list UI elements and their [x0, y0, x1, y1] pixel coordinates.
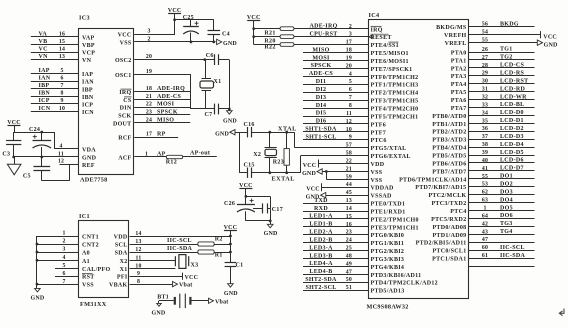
svg-text:LCD-RS: LCD-RS — [500, 71, 524, 77]
svg-text:40: 40 — [482, 158, 488, 164]
svg-text:1: 1 — [145, 151, 148, 157]
IC4 pin 3 RESET / net CPU-RST — [254, 32, 392, 42]
svg-text:24: 24 — [146, 117, 152, 123]
resistor R1 — [198, 250, 232, 259]
svg-text:X3: X3 — [191, 263, 199, 269]
svg-text:SHT2-SDA: SHT2-SDA — [305, 277, 337, 283]
IC3 pin 17 RCF / net RP — [118, 132, 178, 142]
ground symbol (C26) — [264, 224, 278, 237]
svg-text:10: 10 — [346, 127, 352, 133]
svg-text:PTC6: PTC6 — [371, 138, 387, 144]
svg-text:RST: RST — [82, 275, 95, 281]
svg-text:PTD7/KBI7/AD15: PTD7/KBI7/AD15 — [415, 185, 466, 191]
svg-text:C5: C5 — [23, 174, 31, 180]
svg-text:C26: C26 — [224, 201, 235, 207]
svg-text:AP: AP — [157, 151, 166, 157]
IC1 pin 1 CNT1 — [37, 231, 99, 241]
svg-text:GND: GND — [302, 171, 316, 177]
svg-text:LED4-B: LED4-B — [309, 269, 332, 275]
svg-text:BKDG: BKDG — [500, 21, 519, 27]
svg-text:6: 6 — [349, 87, 352, 93]
svg-text:PTA3: PTA3 — [451, 74, 467, 80]
IC1 pin 9 PFI — [117, 271, 140, 281]
svg-text:CPU-RST: CPU-RST — [309, 32, 337, 38]
IC4 pin 14 PTE1/RXD1 / net RXD — [303, 206, 406, 216]
wire XTAL node — [239, 125, 297, 133]
IC4 pin 64 PTC5/RXD2 / net DO6 — [431, 213, 534, 223]
svg-text:DO1: DO1 — [500, 174, 513, 180]
IC4 pin 6 PTF2/TPM1CH4 / net DI2 — [303, 87, 418, 97]
IC4 pin 5 PTF1/TPM1CH3 / net DI1 — [303, 79, 418, 89]
svg-text:VDDAD: VDDAD — [371, 186, 395, 192]
svg-text:LED3-A: LED3-A — [309, 245, 333, 251]
svg-text:TG4: TG4 — [500, 229, 513, 235]
svg-text:OSC1: OSC1 — [115, 73, 132, 79]
svg-text:VCC: VCC — [118, 33, 132, 39]
svg-text:PTA6: PTA6 — [451, 98, 467, 104]
svg-text:GND: GND — [224, 291, 238, 297]
IC1 pin 11 X2 — [120, 255, 142, 265]
IC3 pin 18 IRQ / net ADE-IRQ — [119, 86, 190, 96]
IC4 pin 55 VREFL — [445, 38, 558, 49]
svg-text:PTD3/KBI6/AD11: PTD3/KBI6/AD11 — [371, 273, 422, 279]
svg-text:TG1: TG1 — [500, 47, 513, 53]
svg-text:BKDG/MS: BKDG/MS — [436, 25, 467, 31]
VCC symbol (top middle) — [168, 8, 182, 34]
svg-text:R12: R12 — [166, 160, 177, 166]
svg-text:42: 42 — [482, 221, 488, 227]
svg-text:X1: X1 — [120, 267, 128, 273]
IC4 pin 39 PTB5/ATD5 / net LCD-D5 — [432, 150, 534, 160]
svg-text:55: 55 — [482, 174, 488, 180]
wire EXTAL to IC4 pin 58 — [300, 156, 302, 173]
svg-text:13: 13 — [59, 54, 65, 60]
svg-text:IC1: IC1 — [79, 213, 90, 220]
svg-text:CNT2: CNT2 — [82, 243, 99, 249]
svg-text:6: 6 — [62, 271, 65, 277]
resistor R20 — [264, 35, 294, 45]
ground flag (XTAL cluster) — [215, 129, 239, 137]
svg-text:SHT1-SDA: SHT1-SDA — [305, 127, 337, 133]
svg-text:10: 10 — [59, 106, 65, 112]
resistor R23 — [273, 132, 290, 173]
IC3 pin 11 GND — [14, 151, 97, 161]
svg-text:DI5: DI5 — [316, 111, 327, 117]
svg-text:14: 14 — [59, 46, 65, 52]
svg-text:47: 47 — [346, 269, 352, 275]
svg-text:GND: GND — [215, 131, 229, 137]
svg-text:R1: R1 — [215, 253, 223, 259]
IC4 pin 49 PTG4/KBI4 / net LED4-A — [303, 261, 404, 271]
IC4 pin 47 PTD3/KBI6/AD11 / net LED4-B — [303, 269, 421, 279]
IC3 pin 12 REF — [58, 159, 95, 169]
IC4 pin 29 PTA3 / net LCD-RS — [451, 71, 535, 81]
svg-text:PTG6/EXTAL: PTG6/EXTAL — [371, 154, 411, 160]
IC4 pin 9 PTC6 / net SHT1-SCL — [303, 135, 387, 145]
IC4 pin 19 PTE6/MOSI1 / net MOSI — [303, 55, 409, 65]
svg-text:GND: GND — [544, 43, 558, 49]
svg-text:LCD-BL: LCD-BL — [500, 102, 524, 108]
IC4 pin 54 VREFH — [444, 30, 557, 41]
ground symbol (IC1) — [31, 288, 45, 301]
IC4 pin 24 PTG1/KBI1 / net LED2-B — [303, 237, 404, 247]
svg-text:2: 2 — [147, 36, 150, 42]
svg-text:49: 49 — [346, 261, 352, 267]
svg-text:EXTAL: EXTAL — [272, 176, 295, 183]
svg-text:LED1-B: LED1-B — [309, 222, 332, 228]
svg-text:22: 22 — [146, 102, 152, 108]
svg-text:7: 7 — [349, 95, 352, 101]
svg-text:GND: GND — [264, 231, 278, 237]
svg-text:PTB5/ATD5: PTB5/ATD5 — [432, 154, 466, 160]
svg-text:ICP: ICP — [82, 102, 93, 108]
IC1 pin 10 X1 — [120, 263, 142, 273]
capacitor C24 (electrolytic) — [29, 127, 51, 157]
svg-text:31: 31 — [482, 87, 488, 93]
svg-text:26: 26 — [482, 47, 488, 53]
svg-text:TG3: TG3 — [500, 221, 513, 227]
svg-text:12: 12 — [58, 159, 64, 165]
svg-text:15: 15 — [59, 39, 65, 45]
IC4 pin 7 PTF3/TPM1CH5 / net DI3 — [303, 95, 418, 105]
svg-text:25: 25 — [346, 246, 352, 252]
wire analog ground row — [12, 156, 43, 159]
wire C26 bottom to gnd — [246, 208, 272, 224]
svg-text:TG2: TG2 — [500, 55, 513, 61]
IC4 pin 15 PTE2/TPM1CH0 / net LED1-A — [303, 214, 419, 224]
svg-text:BT1: BT1 — [157, 294, 169, 300]
IC4 pin 50 PTD4/TPM2CLK/AD12 / net SHT2-SDA — [303, 277, 438, 287]
VCC flag (PFI) — [130, 273, 199, 281]
IC4 pin 11 PTF5/TPM2CH1 / net DI5 — [303, 111, 418, 121]
svg-text:43: 43 — [482, 229, 488, 235]
svg-text:MOSI: MOSI — [157, 102, 175, 108]
svg-text:15: 15 — [346, 214, 352, 220]
svg-text:48: 48 — [346, 254, 352, 260]
wire AP-out — [183, 151, 217, 157]
svg-text:X1: X1 — [214, 79, 222, 85]
svg-text:MOSI: MOSI — [312, 55, 330, 61]
wire VCC to pin3 and decoupling branch — [173, 18, 214, 21]
capacitor C4 — [208, 20, 230, 44]
svg-text:51: 51 — [346, 285, 352, 291]
svg-text:ACF: ACF — [118, 156, 131, 162]
svg-text:1: 1 — [483, 206, 486, 212]
IC3 pin 16 VAP / net VA — [31, 31, 95, 41]
IC4 pin 22 VDD — [303, 158, 385, 169]
IC3 pin 23 SCK / net SPSCK — [118, 110, 190, 120]
svg-text:VSS: VSS — [120, 40, 132, 46]
wire IC1 ground bus — [36, 236, 39, 288]
IC4 pin 40 PTB6/ATD6 / net LCD-D6 — [432, 158, 534, 168]
svg-text:9: 9 — [60, 98, 63, 104]
svg-text:5: 5 — [60, 68, 63, 74]
ground flag GND (VSS line) — [217, 39, 238, 47]
RTC/FRAM IC U-IC1 FM31XX body — [79, 221, 129, 298]
svg-text:19: 19 — [346, 56, 352, 62]
svg-text:IBP: IBP — [82, 87, 93, 93]
crystal X2 — [253, 132, 276, 173]
IC4 pin 37 PTB3/ATD3 / net LCD-D3 — [432, 134, 534, 144]
wire SCL / net IIC-SCL — [130, 238, 198, 245]
svg-text:PTG3/KBI3: PTG3/KBI3 — [371, 257, 405, 263]
svg-text:4: 4 — [59, 143, 62, 149]
VCC symbol (IC1 pull-ups) — [224, 225, 238, 263]
IC4 spare pin stub — [469, 266, 535, 268]
svg-text:PTB2/ATD2: PTB2/ATD2 — [432, 130, 466, 136]
wire OSC1 down-leg — [134, 74, 191, 109]
IC4 pin 45 VSSAD — [306, 190, 392, 201]
svg-text:CAL/PFO: CAL/PFO — [82, 267, 110, 273]
IC1 pin 2 CNT2 — [37, 239, 99, 249]
wire gnd bus (crystal caps) — [239, 132, 241, 173]
IC4 pin 53 PTD7/KBI7/AD15 / net DO2 — [415, 182, 534, 192]
IC4 pin 21 VSS — [302, 166, 383, 177]
svg-text:PTD1/AD09: PTD1/AD09 — [432, 233, 466, 239]
svg-text:C7: C7 — [205, 112, 213, 118]
svg-text:38: 38 — [482, 142, 488, 148]
IC1 pin 4 A1 — [37, 255, 90, 265]
svg-text:VCC: VCC — [7, 120, 21, 126]
svg-text:9: 9 — [349, 135, 352, 141]
svg-text:VSS: VSS — [82, 283, 94, 289]
IC4 pin 17 PTE4/SS1 — [254, 40, 399, 50]
svg-text:ADE-CS: ADE-CS — [157, 94, 181, 100]
IC1 pin 7 VSS — [37, 279, 94, 289]
svg-text:VCC: VCC — [168, 8, 182, 14]
svg-text:5: 5 — [62, 263, 65, 269]
IC4 pin 2 IRQ / net ADE-IRQ — [254, 24, 383, 34]
svg-text:VAP: VAP — [82, 36, 94, 42]
IC3 pin 3 VCC — [118, 29, 175, 39]
IC1 pin 5 CAL/PFO — [55, 263, 110, 273]
IC3 pin 9 ICP / net ICP — [31, 98, 93, 108]
svg-text:21: 21 — [346, 166, 352, 172]
ground symbol (BT1) — [152, 301, 166, 317]
svg-text:LED4-A: LED4-A — [309, 261, 333, 267]
svg-text:29: 29 — [482, 71, 488, 77]
wire VCC node to VDA — [14, 131, 55, 149]
svg-text:LCD-WR: LCD-WR — [500, 94, 527, 100]
svg-text:ICP: ICP — [39, 98, 50, 104]
ground symbol (C1) — [224, 284, 238, 298]
IC3 pin 21 CS / net ADE-CS — [123, 94, 190, 104]
svg-text:X2: X2 — [120, 259, 128, 265]
svg-text:VSS: VSS — [371, 178, 383, 184]
svg-text:PTD4/TPM2CLK/AD12: PTD4/TPM2CLK/AD12 — [371, 281, 438, 287]
svg-text:PTE1/RXD1: PTE1/RXD1 — [371, 210, 406, 216]
capacitor C1 — [225, 263, 244, 284]
IC4 pin 41 PTB7/ATD7 / net LCD-D7 — [432, 166, 534, 176]
svg-text:Vbat: Vbat — [179, 283, 192, 289]
svg-text:VREFH: VREFH — [444, 33, 467, 39]
IC4 pin 23 PTG0/KBI0 / net LED2-A — [303, 230, 404, 240]
svg-text:16: 16 — [346, 222, 352, 228]
svg-text:SPSCK: SPSCK — [157, 110, 178, 116]
svg-text:23: 23 — [346, 230, 352, 236]
svg-text:CS: CS — [123, 98, 132, 104]
svg-text:11: 11 — [58, 151, 64, 157]
svg-text:PTA2: PTA2 — [451, 66, 467, 72]
capacitor C25 (electrolytic) — [183, 15, 199, 43]
svg-text:VCC: VCC — [185, 275, 199, 281]
svg-text:PTF6: PTF6 — [371, 122, 387, 128]
svg-text:PTE5/MISO1: PTE5/MISO1 — [371, 51, 409, 57]
svg-text:ICN: ICN — [82, 110, 94, 116]
svg-text:IRQ: IRQ — [119, 90, 131, 96]
svg-text:PTE3/TPM1CH1: PTE3/TPM1CH1 — [371, 225, 419, 231]
svg-text:13: 13 — [346, 198, 352, 204]
IC4 pin 20 PTE7/SPSCK1 / net SPSCK — [303, 63, 412, 73]
svg-text:PTC1/SDA1: PTC1/SDA1 — [432, 257, 466, 263]
svg-text:R23: R23 — [273, 159, 284, 165]
svg-text:IAP: IAP — [82, 72, 93, 78]
IC4 pin 25 PTG2/KBI2 / net LED3-A — [303, 245, 404, 255]
VCC symbol (MCU pull-ups) — [247, 15, 261, 45]
IC4 pin 1 PTC4 / net DO5 — [450, 205, 534, 215]
svg-text:57: 57 — [346, 143, 352, 149]
IC4 pin 48 PTG3/KBI3 / net LED3-B — [303, 253, 404, 263]
IC4 pin 59 VSS — [326, 172, 382, 184]
svg-text:PTF1/TPM1CH3: PTF1/TPM1CH3 — [371, 83, 419, 89]
IC4 pin 13 PTE0/TXD1 / net TXD — [303, 198, 405, 208]
IC4 pin 61 PTC1/SDA1 / net IIC-SDA — [432, 253, 534, 263]
svg-text:LED1-A: LED1-A — [309, 214, 333, 220]
IC3 pin 22 DIN / net MOSI — [120, 102, 191, 112]
IC4 pin 56 BKDG/MS — [436, 21, 534, 31]
svg-text:VBAK: VBAK — [109, 283, 128, 289]
wire C26 top branch — [246, 196, 271, 208]
IC4 pin 60 PTC0/SCL1 / net IIC-SCL — [432, 245, 534, 255]
svg-text:LCD-D3: LCD-D3 — [500, 134, 524, 140]
svg-text:VCC: VCC — [224, 225, 238, 231]
svg-text:SDA: SDA — [115, 251, 128, 257]
IC4 pin 33 PTA7 / net LCD-BL — [451, 102, 535, 112]
svg-text:LCD-D4: LCD-D4 — [500, 142, 524, 148]
svg-text:PTF7: PTF7 — [371, 130, 387, 136]
svg-text:SHT1-SCL: SHT1-SCL — [305, 135, 336, 141]
svg-text:LED2-B: LED2-B — [309, 237, 332, 243]
svg-text:PTF3/TPM1CH5: PTF3/TPM1CH5 — [371, 99, 419, 105]
svg-text:C6: C6 — [206, 53, 214, 59]
svg-text:PTC5/RXD2: PTC5/RXD2 — [431, 217, 466, 223]
capacitor C5 — [23, 157, 70, 181]
IC4 pin 42 PTD0/AD08 / net TG3 — [432, 221, 534, 231]
svg-text:C25: C25 — [183, 15, 194, 21]
IC1 pin 3 A0 — [37, 247, 90, 257]
svg-text:GND: GND — [82, 156, 97, 162]
svg-text:59: 59 — [346, 174, 352, 180]
svg-text:R21: R21 — [264, 30, 275, 36]
svg-text:DI6: DI6 — [316, 119, 327, 125]
svg-text:SHT2-SCL: SHT2-SCL — [305, 285, 336, 291]
svg-text:RXD: RXD — [314, 206, 328, 212]
svg-text:GND: GND — [152, 311, 166, 317]
svg-text:A0: A0 — [82, 251, 90, 257]
IC4 pin 36 PTB2/ATD2 / net LCD-D2 — [432, 126, 534, 136]
capacitor C16 — [244, 122, 255, 137]
IC4 pin 28 PTA2 / net LCD-CS — [451, 63, 535, 73]
svg-text:VBP: VBP — [82, 43, 95, 49]
IC4 pin 58 PTG6/EXTAL — [301, 151, 411, 161]
svg-text:IIC-SCL: IIC-SCL — [500, 245, 525, 251]
svg-text:DO6: DO6 — [500, 213, 513, 219]
svg-text:PTB6/ATD6: PTB6/ATD6 — [432, 161, 466, 167]
IC1 pin 14 VDD — [114, 231, 142, 241]
svg-text:PTF4/TPM2CH0: PTF4/TPM2CH0 — [371, 107, 419, 113]
svg-text:37: 37 — [482, 134, 488, 140]
svg-text:GND: GND — [223, 119, 237, 125]
IC3 pin 10 ICN / net ICN — [31, 106, 94, 116]
svg-text:PTA5: PTA5 — [451, 90, 467, 96]
svg-text:IC3: IC3 — [79, 15, 90, 22]
svg-text:35: 35 — [482, 118, 488, 124]
svg-text:8: 8 — [349, 103, 352, 109]
svg-text:PTG4/KBI4: PTG4/KBI4 — [371, 265, 405, 271]
svg-text:50: 50 — [346, 277, 352, 283]
svg-text:30: 30 — [482, 79, 488, 85]
svg-text:LCD-D1: LCD-D1 — [500, 118, 524, 124]
paragraph return mark — [559, 309, 564, 316]
svg-text:20: 20 — [146, 54, 152, 60]
IC3 pin 8 IBN / net IBN — [31, 91, 94, 101]
svg-text:VREFL: VREFL — [445, 41, 467, 47]
svg-text:24: 24 — [346, 238, 352, 244]
svg-text:PTB4/ATD4: PTB4/ATD4 — [432, 146, 466, 152]
svg-text:SPSCK: SPSCK — [311, 63, 332, 69]
svg-text:LCD-D6: LCD-D6 — [500, 158, 524, 164]
MCU U-IC4 MC9S08AW32 body — [369, 20, 469, 299]
wire EXTAL node — [239, 171, 300, 182]
svg-text:DOUT: DOUT — [113, 121, 132, 127]
svg-text:PTC4: PTC4 — [450, 209, 466, 215]
svg-text:LCD-CS: LCD-CS — [500, 63, 524, 69]
svg-text:LCD-D2: LCD-D2 — [500, 126, 524, 132]
svg-text:VN: VN — [39, 54, 49, 60]
svg-text:PTC0/SCL1: PTC0/SCL1 — [432, 249, 466, 255]
svg-text:PTD2/KBI5/AD11: PTD2/KBI5/AD11 — [416, 241, 467, 247]
svg-text:ADE7758: ADE7758 — [80, 177, 108, 184]
svg-text:IIC-SCL: IIC-SCL — [167, 238, 192, 244]
svg-text:4: 4 — [349, 71, 352, 77]
svg-text:4: 4 — [62, 255, 65, 261]
svg-text:RP: RP — [157, 132, 166, 138]
svg-text:C17: C17 — [272, 207, 283, 213]
svg-text:AP-out: AP-out — [190, 151, 210, 157]
svg-text:28: 28 — [482, 63, 488, 69]
IC4 pin 26 PTA0 / net TG1 — [451, 47, 535, 57]
wire SDA / net IIC-SDA — [130, 246, 198, 253]
capacitor C15 — [244, 162, 255, 178]
IC3 pin 5 IAP / net IAP — [31, 68, 93, 78]
IC4 pin 16 PTE3/TPM1CH1 / net LED1-B — [303, 222, 419, 232]
svg-text:17: 17 — [146, 132, 152, 138]
IC4 pin 47 PTD2/KBI5/AD11 — [416, 237, 535, 247]
svg-text:DI1: DI1 — [316, 79, 327, 85]
svg-text:12: 12 — [346, 119, 352, 125]
svg-text:IAN: IAN — [39, 76, 51, 82]
svg-text:18: 18 — [346, 48, 352, 54]
svg-text:IBN: IBN — [82, 95, 94, 101]
IC3 pin 4 VDA — [54, 143, 96, 153]
svg-text:VSSAD: VSSAD — [371, 194, 393, 200]
svg-text:DO5: DO5 — [500, 205, 513, 211]
svg-text:VSS: VSS — [371, 170, 383, 176]
svg-text:IC4: IC4 — [369, 12, 380, 19]
svg-text:8: 8 — [60, 91, 63, 97]
svg-text:LCD-D7: LCD-D7 — [500, 166, 524, 172]
ground symbol (analog, triangle) — [7, 157, 21, 175]
